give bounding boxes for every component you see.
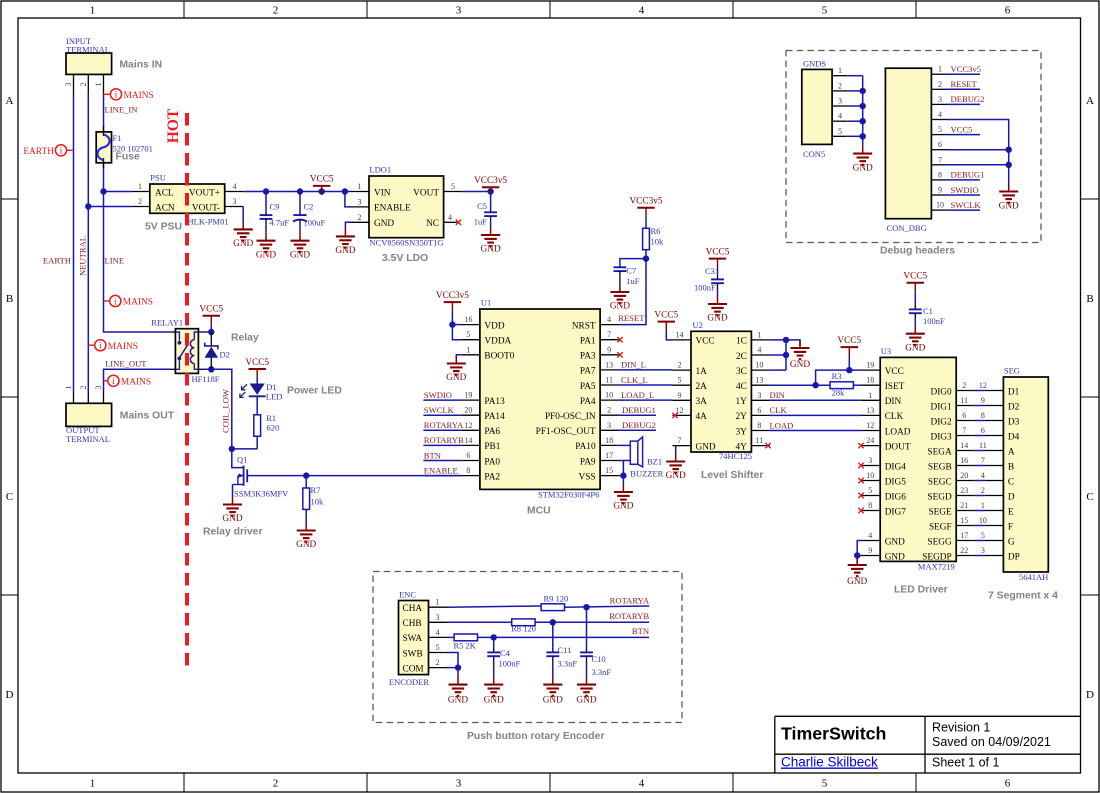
connector INPUT TERMINAL J-in (64, 36, 112, 93)
svg-text:SWDIO: SWDIO (951, 185, 979, 195)
power VCC5 at LED (245, 358, 269, 378)
svg-text:E: E (1008, 507, 1014, 517)
comment 3.5V LDO (382, 253, 428, 264)
junction C2 (297, 188, 303, 194)
svg-text:LDO1: LDO1 (369, 165, 391, 175)
svg-text:B: B (1008, 462, 1014, 472)
svg-text:24: 24 (866, 436, 874, 445)
svg-text:VCC3v5: VCC3v5 (951, 64, 982, 74)
svg-text:GND: GND (853, 164, 873, 174)
wire LDO enable (345, 192, 351, 207)
junction 4C (812, 382, 818, 388)
svg-text:4: 4 (868, 531, 872, 540)
svg-text:HLK-PM01: HLK-PM01 (188, 217, 229, 227)
no-connect X 4A (672, 413, 677, 418)
svg-text:10: 10 (866, 471, 874, 480)
svg-text:5: 5 (981, 531, 985, 540)
svg-text:CHB: CHB (403, 619, 422, 629)
svg-text:C7: C7 (626, 266, 636, 276)
svg-text:GND: GND (448, 696, 468, 706)
ground C3 (707, 296, 727, 324)
svg-text:2: 2 (79, 83, 88, 87)
net label ENABLE (424, 465, 458, 475)
wire SWA to R5 (447, 636, 455, 638)
junction U3 GND (854, 552, 860, 558)
svg-text:GNDS: GNDS (803, 58, 826, 68)
svg-text:TERMINAL: TERMINAL (66, 45, 110, 55)
svg-text:GND: GND (374, 219, 394, 229)
svg-text:2: 2 (273, 778, 279, 790)
svg-text:2: 2 (436, 658, 440, 667)
wire U3 GND pins (857, 541, 862, 564)
svg-text:CLK: CLK (885, 412, 904, 422)
svg-text:BZ1: BZ1 (647, 457, 662, 467)
svg-text:10: 10 (755, 361, 763, 370)
svg-text:1: 1 (138, 182, 142, 191)
svg-text:SEGB: SEGB (928, 462, 952, 472)
svg-text:4: 4 (233, 182, 237, 191)
svg-text:6: 6 (466, 451, 470, 460)
svg-text:SEG: SEG (1004, 366, 1020, 376)
junction 2C (783, 352, 789, 358)
capacitor C3 (694, 266, 724, 296)
svg-text:3.3nF: 3.3nF (592, 667, 612, 677)
capacitor C5 (474, 192, 497, 228)
wire DEBUG2 header (947, 103, 981, 105)
svg-text:PF1-OSC_OUT: PF1-OSC_OUT (536, 427, 596, 437)
svg-text:A: A (1086, 95, 1094, 107)
ground C2 (290, 233, 310, 261)
svg-text:B: B (6, 293, 13, 305)
comment Relay driver (203, 527, 263, 538)
svg-text:8: 8 (757, 421, 761, 430)
svg-text:2: 2 (273, 5, 279, 17)
svg-text:LINE: LINE (105, 256, 125, 266)
svg-text:DIG6: DIG6 (885, 492, 907, 502)
wires U3 to SEG (975, 391, 985, 556)
wire DEBUG1 header (947, 179, 981, 181)
svg-text:GND: GND (296, 540, 316, 550)
junction LDO enable tap (342, 188, 348, 194)
svg-text:PA1: PA1 (580, 337, 596, 347)
svg-text:STM32F030F4P6: STM32F030F4P6 (538, 490, 599, 500)
svg-text:5: 5 (868, 486, 872, 495)
ground 1C2C3C (790, 340, 810, 370)
svg-text:B: B (1086, 293, 1093, 305)
wire ROTARYA (565, 606, 650, 607)
svg-text:4: 4 (981, 471, 985, 480)
net label VCC5 header (951, 124, 973, 134)
svg-text:SEGF: SEGF (929, 522, 952, 532)
svg-text:i: i (115, 91, 118, 101)
wire CON5 gnd bus (847, 76, 863, 146)
svg-text:DIN_L: DIN_L (621, 360, 646, 370)
wire relay coil top (204, 325, 211, 332)
svg-text:100nF: 100nF (499, 659, 521, 669)
net label RESET (618, 313, 645, 323)
svg-text:GND: GND (696, 442, 716, 452)
svg-text:9: 9 (938, 186, 942, 195)
svg-text:SEGA: SEGA (927, 447, 952, 457)
svg-text:GND: GND (847, 577, 867, 587)
svg-text:3: 3 (938, 95, 942, 104)
svg-text:20: 20 (464, 406, 472, 415)
net label EARTH (43, 256, 71, 266)
ground CON_DBG (999, 184, 1019, 212)
svg-text:GND: GND (446, 373, 466, 383)
svg-text:C: C (1086, 491, 1093, 503)
svg-text:17: 17 (605, 451, 613, 460)
svg-text:GND: GND (481, 245, 501, 255)
svg-text:D2: D2 (220, 350, 230, 360)
net label DEBUG2 header (951, 94, 985, 104)
svg-text:5: 5 (436, 643, 440, 652)
svg-text:GND: GND (707, 314, 727, 324)
svg-text:7 Segment x 4: 7 Segment x 4 (988, 591, 1058, 602)
resistor R9 120 (541, 594, 568, 611)
svg-text:19: 19 (464, 391, 472, 400)
power VCC5 at C3 (706, 247, 730, 267)
title block (775, 716, 1081, 773)
junction relay coil top (208, 329, 214, 335)
svg-text:2: 2 (938, 80, 942, 89)
LED D1 (240, 378, 283, 405)
power VCC5 at U2 (654, 310, 678, 330)
relay RELAY1 HF118F (151, 317, 220, 384)
junction C9 (263, 188, 269, 194)
svg-text:D1: D1 (1008, 387, 1020, 397)
svg-text:NCV8560SN350T1G: NCV8560SN350T1G (369, 237, 443, 247)
svg-text:DIG2: DIG2 (931, 417, 953, 427)
comment MCU (527, 506, 551, 517)
junction RESET / R6 / C7 (643, 255, 649, 261)
svg-text:1: 1 (466, 345, 470, 354)
junction header pin7 (1006, 162, 1012, 168)
wire VCC5 header (947, 134, 981, 136)
IC U2 74HC125 level shifter (673, 320, 770, 461)
svg-text:C5: C5 (477, 201, 487, 211)
svg-text:9: 9 (981, 396, 985, 405)
svg-text:1: 1 (436, 598, 440, 607)
ground C10 (576, 677, 596, 706)
svg-text:5: 5 (466, 330, 470, 339)
no-connect X DIG5 (858, 478, 863, 483)
net label DEBUG1 (622, 405, 656, 415)
svg-text:10: 10 (605, 391, 613, 400)
svg-text:D: D (6, 689, 14, 701)
svg-text:DIG0: DIG0 (931, 387, 953, 397)
svg-text:18: 18 (866, 376, 874, 385)
svg-text:BTN: BTN (424, 450, 442, 460)
svg-text:5V PSU: 5V PSU (145, 222, 182, 233)
power VCC5 at C1 (903, 272, 927, 292)
wire LINE_OUT (104, 369, 171, 391)
svg-text:VCC5: VCC5 (706, 247, 730, 257)
svg-text:i: i (99, 342, 102, 352)
svg-text:3: 3 (456, 5, 462, 17)
svg-text:DEBUG2: DEBUG2 (951, 94, 985, 104)
svg-text:C3: C3 (705, 266, 715, 276)
svg-text:10: 10 (979, 516, 987, 525)
svg-text:6: 6 (1005, 5, 1011, 17)
net label ROTARYA (610, 596, 650, 606)
svg-text:23: 23 (960, 486, 968, 495)
resistor R3 28k (830, 371, 853, 398)
ground C1 (905, 326, 925, 354)
svg-text:16: 16 (464, 315, 472, 324)
svg-text:LED: LED (266, 392, 283, 402)
svg-text:8: 8 (938, 170, 942, 179)
svg-text:F1: F1 (113, 133, 122, 143)
svg-text:2: 2 (981, 486, 985, 495)
svg-text:3: 3 (94, 386, 103, 390)
svg-text:PA13: PA13 (484, 397, 505, 407)
global label MAINS on LINE_OUT (104, 375, 152, 387)
junction COM (455, 664, 461, 670)
svg-text:ROTARYB: ROTARYB (609, 611, 649, 621)
svg-text:1: 1 (757, 330, 761, 339)
capacitor C10 (580, 607, 611, 677)
svg-text:28k: 28k (832, 388, 846, 398)
svg-text:C11: C11 (558, 645, 572, 655)
junction VCC5 tap (319, 188, 325, 194)
svg-text:R1: R1 (266, 413, 276, 423)
fuse F1 (96, 126, 153, 168)
HOT isolation line (165, 108, 187, 671)
svg-text:Power LED: Power LED (287, 386, 342, 397)
svg-text:7: 7 (981, 456, 985, 465)
wire ROTARYB (423, 444, 461, 446)
svg-text:ROTARYB: ROTARYB (424, 435, 464, 445)
power VCC5 at relay (199, 305, 223, 325)
svg-text:MAINS: MAINS (121, 377, 151, 387)
svg-text:1: 1 (64, 386, 73, 390)
svg-text:5: 5 (938, 125, 942, 134)
ground C5 (481, 227, 501, 255)
svg-text:VCC3v5: VCC3v5 (436, 291, 469, 301)
svg-text:ENABLE: ENABLE (424, 465, 458, 475)
svg-text:DEBUG1: DEBUG1 (951, 170, 985, 180)
svg-text:DIG5: DIG5 (885, 477, 907, 487)
svg-text:3: 3 (358, 197, 362, 206)
svg-text:620: 620 (267, 422, 280, 432)
svg-text:PA4: PA4 (580, 397, 596, 407)
svg-text:9: 9 (868, 546, 872, 555)
svg-text:U1: U1 (481, 298, 491, 308)
wire CLK (770, 414, 862, 416)
svg-text:4: 4 (757, 346, 761, 355)
power VCC5 at rail (310, 175, 334, 195)
svg-text:PA0: PA0 (484, 457, 500, 467)
svg-text:DIN: DIN (885, 397, 902, 407)
wire LINE lower (104, 164, 171, 332)
svg-text:GND: GND (666, 471, 686, 481)
svg-text:GND: GND (543, 696, 563, 706)
wire ROTARYA (423, 429, 461, 431)
ground U2 (666, 454, 686, 482)
svg-text:U2: U2 (693, 320, 703, 330)
ground U3 (847, 557, 867, 587)
svg-text:2: 2 (678, 361, 682, 370)
ground Q1 source (222, 497, 242, 525)
svg-text:12: 12 (464, 421, 472, 430)
svg-text:G: G (1008, 537, 1015, 547)
svg-text:Relay driver: Relay driver (203, 527, 263, 538)
encoder dashed box (373, 572, 682, 723)
junction COIL_LOW / R1 / Q1 (229, 446, 235, 452)
wire header pins 4 6 7 to gnd (947, 120, 1009, 184)
svg-text:RESET: RESET (618, 313, 645, 323)
svg-text:PA7: PA7 (580, 367, 596, 377)
svg-text:8: 8 (466, 466, 470, 475)
svg-text:5641AH: 5641AH (1019, 572, 1048, 582)
comment Mains IN (119, 60, 162, 71)
svg-text:7: 7 (938, 155, 942, 164)
svg-text:U3: U3 (881, 346, 891, 356)
junction C5 (487, 188, 493, 194)
svg-text:3: 3 (436, 613, 440, 622)
svg-text:VCC5: VCC5 (199, 305, 223, 315)
svg-text:PA14: PA14 (484, 412, 505, 422)
svg-text:3.5V LDO: 3.5V LDO (382, 253, 428, 264)
junction VSS (620, 472, 626, 478)
svg-text:VCC5: VCC5 (951, 124, 973, 134)
junction R7 gate (303, 472, 309, 478)
svg-text:VCC5: VCC5 (654, 310, 678, 320)
ground LDO (335, 228, 355, 256)
ground CON5 (853, 146, 873, 174)
svg-text:16: 16 (960, 456, 968, 465)
junction ACL tap (100, 188, 106, 194)
svg-text:6: 6 (1005, 778, 1011, 790)
ground VSS (613, 484, 633, 512)
svg-text:C2: C2 (304, 201, 314, 211)
svg-text:GND: GND (790, 360, 810, 370)
svg-text:GND: GND (885, 537, 905, 547)
svg-text:EARTH: EARTH (23, 147, 54, 157)
capacitor C4 (487, 637, 520, 676)
svg-text:3: 3 (757, 391, 761, 400)
svg-text:11: 11 (605, 376, 613, 385)
svg-text:CON5: CON5 (803, 149, 825, 159)
ground C11 (543, 677, 563, 706)
svg-text:DOUT: DOUT (885, 442, 911, 452)
svg-text:4: 4 (639, 778, 645, 790)
svg-text:1: 1 (868, 391, 872, 400)
svg-text:2: 2 (838, 81, 842, 90)
net label SWCLK header (951, 200, 982, 210)
wire 1C 2C 3C tie (770, 340, 800, 370)
svg-text:R8 120: R8 120 (511, 624, 536, 634)
ground C7 (610, 284, 630, 312)
svg-text:Debug headers: Debug headers (880, 246, 955, 257)
svg-text:4C: 4C (736, 382, 747, 392)
junction C4 (491, 634, 497, 640)
net label SWDIO (424, 390, 452, 400)
svg-text:GND: GND (905, 343, 925, 353)
ground C9 (256, 233, 276, 261)
capacitor C2 electrolytic (293, 192, 326, 233)
no-connect X on LDO NC pin (456, 220, 461, 225)
svg-text:EARTH: EARTH (43, 256, 71, 266)
junction C10 (583, 604, 589, 610)
svg-text:LOAD: LOAD (885, 427, 911, 437)
svg-text:5: 5 (451, 182, 455, 191)
wire SWB COM to gnd (447, 653, 459, 677)
svg-text:C4: C4 (500, 648, 511, 658)
svg-text:1C: 1C (736, 337, 747, 347)
svg-text:Saved on 04/09/2021: Saved on 04/09/2021 (932, 735, 1051, 749)
net label DIN (770, 390, 786, 400)
svg-text:PF0-OSC_IN: PF0-OSC_IN (545, 412, 596, 422)
buzzer BZ1 (619, 437, 664, 478)
svg-text:5: 5 (678, 376, 682, 385)
wire RESET header (947, 88, 981, 90)
svg-text:Push button rotary Encoder: Push button rotary Encoder (467, 731, 604, 742)
svg-text:5: 5 (822, 5, 828, 17)
svg-text:TERMINAL: TERMINAL (66, 434, 110, 444)
wire CLK_L (619, 384, 673, 386)
ground C4 (484, 677, 504, 706)
ground encoder COM (448, 677, 468, 706)
wire VSS to gnd (619, 476, 624, 484)
debug headers dashed box (786, 51, 1041, 243)
wire SWDIO (423, 399, 461, 401)
comment Mains OUT (120, 411, 175, 422)
svg-text:R5 2K: R5 2K (454, 641, 477, 651)
svg-text:1: 1 (838, 66, 842, 75)
comment Relay (231, 333, 259, 344)
svg-text:VIN: VIN (374, 188, 391, 198)
svg-text:SWB: SWB (403, 649, 423, 659)
svg-text:5: 5 (822, 778, 828, 790)
wire BTN (478, 636, 650, 638)
svg-text:3A: 3A (696, 397, 708, 407)
svg-text:13: 13 (755, 376, 763, 385)
svg-text:ROTARYA: ROTARYA (610, 596, 650, 606)
no-connect X DIG7 (858, 508, 863, 513)
svg-text:VOUT-: VOUT- (192, 203, 220, 213)
ground R7 (296, 523, 316, 551)
svg-text:MAINS: MAINS (108, 342, 138, 352)
wire SWCLK (423, 414, 461, 416)
svg-text:C10: C10 (592, 654, 606, 664)
wire PA9 to VSS (622, 461, 624, 476)
svg-text:DIN: DIN (770, 390, 786, 400)
svg-text:R3: R3 (832, 371, 842, 381)
wire LDO gnd (345, 222, 350, 228)
svg-text:9: 9 (607, 345, 611, 354)
svg-text:1Y: 1Y (736, 397, 748, 407)
svg-text:PA9: PA9 (580, 457, 596, 467)
connector ENC ENCODER (389, 589, 447, 687)
svg-text:14: 14 (676, 330, 684, 339)
svg-text:VOUT+: VOUT+ (189, 188, 220, 198)
junction CON5 (860, 88, 866, 94)
svg-text:1: 1 (90, 5, 96, 17)
svg-text:2A: 2A (696, 382, 708, 392)
net label ROTARYA (424, 420, 464, 430)
svg-text:12: 12 (866, 421, 874, 430)
no-connect X DOUT (858, 443, 863, 448)
svg-text:LOAD_L: LOAD_L (621, 390, 654, 400)
wire DEBUG2 (619, 429, 656, 431)
power VCC3v5 at LDO out (474, 176, 507, 196)
svg-text:DEBUG1: DEBUG1 (622, 405, 656, 415)
svg-text:VCC5: VCC5 (310, 175, 334, 185)
wire DIN (770, 399, 862, 401)
net label ROTARYB (609, 611, 649, 621)
